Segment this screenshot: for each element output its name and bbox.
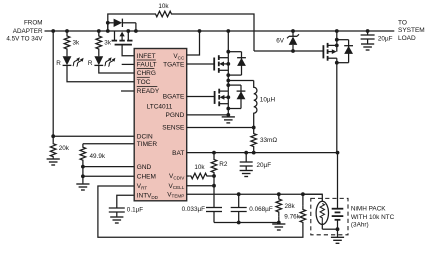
pin label DCIN	[137, 133, 153, 140]
svg-text:20µF: 20µF	[378, 36, 393, 43]
resistor 28k (VTEMP to gnd)	[276, 194, 282, 222]
svg-text:GND: GND	[137, 164, 152, 171]
wire: rail down to TGATE FET drain	[227, 31, 229, 58]
node junction BAT/R2	[212, 151, 216, 155]
resistor 3k (CHRG LED, right)	[96, 31, 102, 54]
node junction rail/VCC	[198, 29, 202, 33]
ground (0.1uF)	[110, 216, 123, 223]
svg-text:R: R	[88, 60, 93, 67]
wire: GND node down to CHEM	[82, 167, 84, 183]
resistor 33mOhm sense	[251, 128, 257, 153]
svg-text:4.5V TO 34V: 4.5V TO 34V	[6, 36, 43, 43]
node junction inductor/sense	[252, 126, 256, 130]
node junction rail/DCIN	[51, 29, 55, 33]
pin label CHRG (overline)	[137, 69, 156, 78]
wire: VTEMP pin bus	[187, 193, 323, 195]
op-amp U1 LTC4011 IC body	[134, 49, 187, 201]
node junction VTEMP/9.76k/thermistor	[301, 192, 305, 196]
svg-text:33mΩ: 33mΩ	[260, 137, 277, 144]
node junction Q4 source/BAT	[335, 61, 339, 65]
transistor Q3 bottom NMOS (BGATE)	[215, 89, 229, 107]
LED 1 (left, on TOC line)	[63, 54, 84, 67]
node junction PGND	[226, 113, 230, 117]
node junction zener/gate line	[291, 49, 295, 53]
pin label PGND	[166, 112, 185, 119]
diode: Q4 body diode	[337, 40, 353, 63]
value label 49.9k	[90, 153, 106, 160]
wire: FAULT pin stub	[122, 63, 135, 65]
capacitor 20uF (system load)	[361, 31, 375, 43]
svg-text:R: R	[56, 60, 61, 67]
transistor Q2 top NMOS (TGATE)	[214, 55, 228, 73]
svg-text:20k: 20k	[59, 145, 70, 152]
wire: LED2 cathode to CHRG pin	[99, 65, 134, 73]
node junction rail/bypass-diode anode	[106, 29, 110, 33]
transistor Q4 load PMOS (PowerPath)	[323, 43, 336, 61]
pin label VCDIV	[169, 173, 185, 180]
pin label CHEM	[137, 174, 156, 181]
resistor 49.9k (TIMER)	[80, 144, 86, 167]
node junction rail/20uF	[366, 29, 370, 33]
pin label INFET	[137, 53, 156, 60]
node junction BAT/20uF	[244, 151, 248, 155]
pin label VCELL	[169, 183, 185, 190]
svg-text:28k: 28k	[285, 203, 296, 210]
svg-text:49.9k: 49.9k	[90, 153, 106, 160]
node junction CHEM	[81, 174, 85, 178]
svg-text:20µF: 20µF	[257, 162, 272, 169]
wire: pack negative to ground	[337, 229, 339, 236]
value label 10k	[158, 3, 169, 10]
pin label VRT	[137, 183, 147, 190]
wire: rail down to Q4	[336, 31, 338, 52]
svg-text:(3Ahr): (3Ahr)	[351, 222, 369, 229]
resistor 9.76k (VTEMP to VRT)	[300, 194, 306, 226]
wire: TGATE pin to gate	[187, 63, 215, 65]
svg-text:READY: READY	[137, 88, 160, 95]
diode zener 6V	[287, 31, 299, 51]
capacitor 0.033uF (VCELL)	[206, 186, 222, 223]
wire: VCC pin to rail	[187, 31, 200, 55]
wire: BGATE pin to gate	[187, 96, 215, 98]
svg-text:3k: 3k	[104, 39, 112, 46]
wire: INTVDD pin to 0.1uF	[117, 195, 134, 208]
wire: GND pin line	[83, 166, 134, 168]
node junction rail/3k-2	[97, 29, 101, 33]
value label 20uF (system)	[378, 36, 393, 43]
wire: VCELL pin line	[187, 185, 214, 187]
part name LTC4011	[147, 103, 173, 110]
value label 10uH	[260, 97, 276, 104]
ground (battery pack)	[331, 237, 344, 244]
svg-text:SYSTEM: SYSTEM	[398, 27, 425, 34]
wire: CHEM pin line	[83, 175, 134, 177]
ground (BAT 20uF)	[240, 170, 253, 177]
wire: load switch gate line	[254, 50, 323, 52]
svg-text:TGATE: TGATE	[163, 62, 185, 69]
ground (power ground below Q3)	[222, 115, 235, 123]
resistor 20k (DCIN to gnd)	[50, 136, 56, 157]
diode: Q2 body diode	[228, 52, 246, 75]
wire: SENSE pin line	[187, 127, 254, 129]
svg-text:FAULT: FAULT	[137, 62, 157, 69]
node junction Q2 diode top	[226, 50, 230, 54]
label R (right LED)	[88, 60, 93, 67]
svg-text:CHEM: CHEM	[137, 174, 156, 181]
ground (GND/CHEM node)	[76, 183, 89, 191]
node DCIN input label FROM ADAPTER	[6, 20, 43, 43]
pin label INTVDD	[137, 193, 159, 200]
svg-text:3k: 3k	[73, 39, 81, 46]
pin label VCC	[173, 53, 185, 60]
node junction Q3 bulk	[226, 95, 230, 99]
wire: Q3 source to power ground	[227, 91, 229, 115]
wire: READY pin stub	[121, 90, 134, 92]
ground (below 20k)	[47, 158, 60, 166]
pin label BAT	[172, 150, 184, 157]
capacitor 20uF (BAT)	[240, 153, 253, 170]
battery pack dashed box	[311, 198, 348, 234]
node junction Q2 bulk	[226, 62, 230, 66]
node junction diode anode	[106, 21, 110, 25]
wire: adapter input rail	[45, 30, 395, 32]
svg-text:BGATE: BGATE	[163, 94, 185, 101]
svg-text:10k: 10k	[194, 164, 205, 171]
svg-text:CHRG: CHRG	[137, 70, 156, 77]
svg-text:TOC: TOC	[137, 79, 151, 86]
pin label FAULT (overline)	[137, 60, 157, 69]
node junction Q4 diode top	[335, 38, 339, 42]
wire: top bypass (rail to load switch gate)	[108, 14, 254, 51]
svg-text:6V: 6V	[276, 38, 285, 45]
value label 3k (right)	[104, 39, 112, 46]
value label 20uF (BAT)	[257, 162, 272, 169]
pin label SENSE	[162, 125, 185, 132]
diode: Q3 body diode	[228, 85, 245, 108]
wire: 10k to R2 node	[209, 175, 215, 177]
value label 20k	[59, 145, 70, 152]
wire: rail to DCIN pin	[53, 31, 134, 136]
ground (system 20uF)	[361, 43, 374, 50]
resistor 3k (FAULT LED, left)	[64, 31, 70, 54]
node junction VTEMP/28k	[277, 192, 281, 196]
ref label R2	[219, 161, 228, 168]
node junction battery/thermistor negative	[336, 227, 340, 231]
svg-text:TO: TO	[398, 19, 407, 26]
svg-text:BAT: BAT	[172, 150, 184, 157]
value label 33mOhm	[260, 137, 277, 144]
svg-text:WITH 10k NTC: WITH 10k NTC	[351, 214, 395, 221]
node junction Q2 diode bottom	[226, 73, 230, 77]
svg-text:FROM: FROM	[24, 20, 43, 27]
wire: analog ground bus (cap bottoms)	[214, 222, 279, 224]
value label 3k (left)	[73, 39, 81, 46]
value label 6V	[276, 38, 285, 45]
wire: Q4 source down to BAT node	[336, 58, 338, 63]
svg-text:NiMH PACK: NiMH PACK	[351, 205, 386, 212]
value label 0.068uF	[249, 206, 273, 213]
label R (left LED)	[56, 60, 61, 67]
svg-text:0.068µF: 0.068µF	[249, 206, 273, 213]
pin label TGATE	[163, 62, 185, 69]
node junction switch node / inductor	[226, 79, 230, 83]
svg-text:PGND: PGND	[166, 112, 185, 119]
svg-text:10µH: 10µH	[260, 97, 276, 104]
battery BT1 NiMH cells	[332, 209, 344, 230]
pin label TOC (overline)	[137, 77, 151, 86]
capacitor 0.1uF (INTVDD)	[109, 208, 125, 216]
value label 0.1uF	[127, 207, 143, 214]
wire: VCDIV pin lead	[187, 175, 190, 177]
node junction Q3 diode top	[226, 83, 230, 87]
resistor 10k (top bypass)	[151, 11, 177, 17]
wire: LED1 cathode to TOC pin	[67, 65, 134, 81]
thermistor RT1 10k NTC	[303, 194, 338, 229]
node junction 49.9k/GND	[81, 165, 85, 169]
LED 2 (right, on CHRG line)	[94, 54, 115, 67]
wire: TIMER pin to 49.9k	[83, 143, 134, 145]
value label 10k (divider)	[194, 164, 205, 171]
wire: BAT pin line	[187, 152, 338, 154]
svg-text:LOAD: LOAD	[398, 35, 416, 42]
node junction VCELL	[212, 184, 216, 188]
node junction gndbus/28k	[277, 221, 281, 225]
svg-text:0.1µF: 0.1µF	[127, 207, 143, 214]
node junction Q3 diode bottom	[226, 107, 230, 111]
pin label BGATE	[163, 94, 185, 101]
node junction VTEMP/0.068uF	[237, 192, 241, 196]
resistor R2 (BAT to VCELL)	[211, 153, 217, 176]
pin label TIMER	[137, 141, 158, 148]
wire: VRT pin to 9.76k bottom (bias loop)	[98, 186, 303, 237]
svg-text:9.76k: 9.76k	[284, 214, 300, 221]
svg-text:SENSE: SENSE	[162, 125, 185, 132]
pin label READY (overline)	[137, 87, 160, 96]
node junction DCIN/20k	[51, 134, 55, 138]
svg-text:ADAPTER: ADAPTER	[13, 28, 43, 35]
wire: PGND pin line	[187, 114, 229, 116]
node junction BAT/battery	[336, 151, 340, 155]
svg-text:10k: 10k	[158, 3, 169, 10]
capacitor 0.068uF (VTEMP)	[231, 194, 247, 222]
wire: divider node down to VCELL tap	[213, 176, 215, 186]
ground (analog ground bus)	[272, 223, 285, 231]
svg-text:TIMER: TIMER	[137, 141, 158, 148]
node junction BAT/33mOhm	[252, 151, 256, 155]
svg-text:INFET: INFET	[137, 53, 156, 60]
svg-text:0.033µF: 0.033µF	[182, 206, 206, 213]
label NiMH pack	[351, 205, 395, 228]
svg-text:R2: R2	[219, 161, 228, 168]
node junction rail/TGATE-FET drain	[226, 29, 230, 33]
pin label GND	[137, 164, 152, 171]
diode D1 (across input PMOS)	[108, 19, 136, 31]
wire: Q1 gate to INFET pin	[122, 45, 134, 56]
node junction rail/load-PMOS	[335, 29, 339, 33]
node junction R2/10k/VCELL	[212, 174, 216, 178]
value label 9.76k	[284, 214, 300, 221]
resistor 10k (VCDIV)	[189, 173, 208, 179]
inductor 10uH	[254, 81, 257, 128]
svg-text:LTC4011: LTC4011	[147, 103, 173, 110]
node label TO SYSTEM LOAD	[398, 19, 425, 42]
pin label VTEMP	[167, 191, 184, 198]
value label 0.033uF	[182, 206, 206, 213]
node junction rail/zener	[291, 29, 295, 33]
node junction gndbus/0.068uF	[237, 221, 241, 225]
node junction rail/bypass-diode cathode	[134, 29, 138, 33]
node junction rail/PMOS source	[126, 29, 130, 33]
node junction Q4 drain	[335, 44, 339, 48]
transistor Q1 input PMOS (INFET)	[112, 31, 133, 45]
wire: switch node vertical	[227, 58, 229, 91]
wire: Q4/BAT node down to battery	[336, 63, 339, 209]
value label 28k	[285, 203, 296, 210]
svg-text:DCIN: DCIN	[137, 133, 153, 140]
wire: switch node to inductor	[228, 80, 253, 82]
node junction rail/3k-1	[65, 29, 69, 33]
